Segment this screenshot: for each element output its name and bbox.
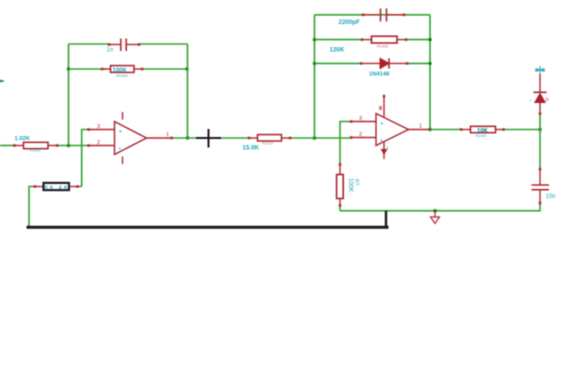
resistor R3 lead left — [249, 137, 258, 139]
svg-text:1N4148: 1N4148 — [369, 72, 390, 78]
diode D2 cathode bar — [534, 91, 547, 93]
junction: U1 output node — [186, 136, 189, 139]
op-amp U1 power pin top — [122, 112, 124, 120]
svg-text:1n: 1n — [107, 48, 114, 54]
resistor R7 body vertical — [337, 175, 344, 199]
resistor R3 lead right — [282, 137, 291, 139]
capacitor C3 lead top — [539, 170, 541, 185]
bus: vertical step to rail — [385, 211, 387, 229]
svg-text:8: 8 — [379, 106, 382, 112]
svg-text:15.0K: 15.0K — [243, 145, 260, 152]
resistor R2 lead left — [102, 68, 111, 70]
wire: U1 output to R3 — [172, 137, 250, 139]
wire: U2 output to R6 — [430, 129, 461, 131]
resistor R5 lead left — [35, 186, 44, 188]
wire: input net left edge to R1 — [0, 145, 15, 147]
junction: left at D1 branch — [313, 62, 316, 65]
svg-text:1: 1 — [386, 145, 389, 150]
svg-text:R1402: R1402 — [30, 149, 41, 153]
svg-text:3: 3 — [359, 116, 362, 122]
wire: R5 left down to bus — [29, 187, 35, 227]
wire: C3 bottom corner to rail — [340, 203, 540, 211]
wire: corner to U2 pin3 — [340, 122, 351, 165]
junction: U2 inverting node — [313, 136, 316, 139]
op-amp U2 power pin bottom — [383, 142, 385, 160]
diode D1 triangle — [380, 58, 389, 68]
svg-text:R1402: R1402 — [377, 45, 388, 49]
power arrow bottom — [381, 149, 388, 155]
diode D2 lead top — [539, 74, 541, 93]
op-amp U1 triangle — [115, 122, 147, 155]
diode D1 cathode bar — [388, 58, 390, 68]
op-amp U2 pin 2 lead — [351, 137, 376, 139]
wire: D1 branch left — [315, 62, 362, 64]
wire: R2 branch right — [142, 68, 188, 70]
op-amp U2 power pin top — [383, 96, 385, 118]
resistor R3 body — [258, 135, 282, 141]
svg-text:2: 2 — [359, 132, 362, 138]
svg-text:1: 1 — [166, 132, 169, 138]
svg-text:R?: R? — [353, 179, 359, 186]
wire: R6 to output corner — [504, 129, 541, 131]
resistor R4 lead left — [362, 39, 372, 41]
ground GND symbol — [434, 211, 436, 217]
svg-text:+: + — [529, 98, 532, 103]
resistor R1 lead right — [48, 145, 57, 147]
capacitor C1 plates — [121, 39, 126, 52]
op-amp U1 output lead — [147, 137, 172, 139]
svg-text:R1402: R1402 — [117, 74, 128, 78]
wire: up to D2 — [539, 114, 541, 130]
wire: R5 right to pin3 vertical — [78, 186, 82, 188]
op-amp U1 pin 2 lead — [89, 145, 115, 147]
wire: R2 branch left — [69, 68, 107, 70]
svg-text:+: + — [380, 121, 384, 128]
capacitor C1 lead left — [109, 44, 120, 46]
resistor R7 bottom lead — [339, 199, 341, 206]
resistor R4 body — [372, 36, 398, 43]
svg-text:120K: 120K — [330, 47, 345, 54]
capacitor C2 lead left — [363, 14, 380, 16]
junction: inverting node — [67, 144, 70, 147]
cursor crosshair — [196, 129, 221, 148]
wire: C2 branch top rail — [315, 14, 431, 16]
resistor R1 lead left — [15, 145, 24, 147]
pin end ticks (red) — [13, 14, 541, 207]
wire: D1 branch right — [407, 62, 430, 64]
svg-text:-: - — [380, 136, 383, 145]
capacitor C3 plates — [532, 185, 550, 190]
resistor R2 lead right — [134, 68, 142, 70]
resistor R1 body — [24, 142, 49, 148]
junction: right at R4 branch — [428, 38, 431, 41]
wire: R4 branch left — [315, 39, 363, 41]
resistor R6 body — [471, 126, 496, 132]
svg-text:100K: 100K — [347, 178, 353, 192]
resistor R4 lead right — [397, 39, 406, 41]
wire: down to C3 — [539, 130, 541, 170]
junction: left at R4 branch — [313, 38, 316, 41]
diode D2 triangle — [535, 94, 545, 103]
wire: C1 branch right — [139, 43, 188, 45]
op-amp U1 pin 3 lead — [89, 129, 115, 131]
capacitor C2 plates — [381, 9, 387, 22]
resistor R6 lead right — [496, 129, 504, 131]
diode D2 lead bottom — [539, 103, 541, 114]
svg-text:1: 1 — [419, 124, 422, 130]
resistor R7 top wire — [339, 165, 341, 175]
svg-text:D: D — [546, 97, 550, 102]
svg-text:1.02K: 1.02K — [15, 136, 31, 142]
diode D1 lead right — [389, 62, 407, 64]
wire: feedback right vertical — [187, 44, 189, 138]
junction: right at D1 branch — [428, 62, 431, 65]
wire: R3 to U2 pin2 — [290, 137, 351, 139]
junction: feedback left at R2 branch — [67, 67, 70, 70]
op-amp U2 output lead — [409, 129, 431, 131]
op-amp U1 power pin bottom — [122, 157, 124, 165]
wire: feedback left vertical — [68, 44, 70, 146]
svg-text:3: 3 — [97, 124, 100, 130]
svg-text:R1402: R1402 — [476, 134, 487, 138]
junction: output corner node — [538, 128, 541, 131]
svg-text:2: 2 — [97, 140, 100, 146]
capacitor C1 lead right — [127, 44, 139, 46]
bus: thick black wire bottom — [27, 226, 389, 229]
wire: right feedback left vertical — [314, 15, 316, 138]
power symbol +15 cyan — [535, 66, 545, 73]
svg-text:R1402: R1402 — [262, 142, 273, 146]
diode D1 lead left — [361, 62, 380, 64]
resistor R2 body — [111, 66, 135, 73]
capacitor C2 lead right — [387, 14, 404, 16]
op-amp U2 pin 3 lead — [351, 121, 376, 123]
wire: R4 branch right — [406, 39, 430, 41]
resistor R6 lead left — [461, 129, 471, 131]
svg-text:2200pF: 2200pF — [339, 19, 361, 26]
op-amp U2 triangle — [376, 114, 409, 146]
wire: right feedback right vertical — [429, 15, 431, 130]
wire: C1 branch left — [69, 43, 110, 45]
wire: R7 to rail — [339, 206, 341, 211]
svg-text:10n: 10n — [546, 194, 556, 200]
resistor R5 body selected — [44, 183, 70, 190]
wire: U1 pin3 to R5 vertical — [82, 130, 89, 187]
junction: feedback right at R2 branch — [185, 67, 188, 70]
capacitor C3 lead bottom — [539, 191, 541, 204]
resistor R5 lead right — [69, 186, 78, 188]
junction: ground node — [433, 209, 437, 213]
clipped connector arrow at left edge — [0, 80, 5, 83]
junction: U2 output node — [428, 128, 431, 131]
wire: input net R1 to U1 pin2 — [57, 145, 89, 147]
svg-text:-: - — [119, 144, 122, 153]
svg-text:+: + — [119, 129, 123, 136]
